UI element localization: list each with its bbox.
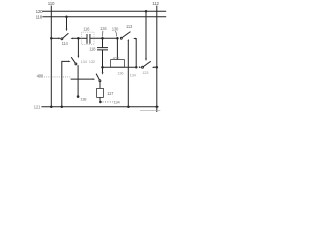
lower wire [103,66,137,68]
svg-text:134: 134 [100,26,107,31]
svg-text:123: 123 [142,70,149,75]
svg-text:116: 116 [83,26,90,31]
svg-text:117: 117 [107,91,114,96]
wire S5 output to resistor [99,82,101,88]
node dot lower wire / S2 drop [135,66,138,69]
arrow up at top of bleeder [128,39,130,41]
net 400 dotted leader [44,76,70,78]
wire S4 output down to terminal [77,65,79,96]
capacitor 116 plates [87,34,90,44]
svg-text:113: 113 [126,24,133,29]
node dot 112 line / bottom rail [156,106,159,109]
wire mid feed to S1 [51,37,58,39]
wire gate drop to box [116,38,118,59]
faint stub line bottom right [140,110,160,112]
wire switch S1 control drop [66,17,68,29]
wire S2 output corner down [134,39,137,68]
arrow left on S2 output [133,38,135,40]
switch S5 arm [96,74,99,80]
switch S1 pivot [61,38,63,40]
node dot lower wire branch [101,66,104,69]
switch S2 arm [122,32,130,38]
switch S2 pivot [120,37,122,39]
node dot S1 output / S4 branch [77,37,80,40]
resistor 117 box [97,88,104,97]
wire S4 feed from bottom rail [62,61,69,106]
wire S4 control drop [77,38,79,56]
svg-text:130: 130 [112,26,119,31]
node dot 130 on mid wire [116,37,119,40]
terminal dot 136b [99,101,102,104]
svg-text:134: 134 [113,100,120,105]
svg-text:4001: 4001 [113,56,120,60]
svg-text:134: 134 [130,73,137,78]
wire 110 tick [50,6,52,12]
svg-text:120: 120 [36,9,43,14]
svg-text:112: 112 [152,1,159,6]
switch S5 pivot [99,80,101,82]
wire resistor to terminal [99,97,101,100]
arrow down onto switch S3 [145,59,147,62]
switch S1 arm [63,33,69,38]
wire left vertical from 110 [50,11,52,107]
svg-text:114: 114 [62,41,69,46]
svg-text:134: 134 [81,59,88,64]
rail bottom [41,106,158,108]
switch S4 pivot [75,63,77,65]
node dot at left vertical / bottom rail [50,106,53,109]
node dot rail118 / switch S1 control [65,16,68,19]
switch S3 arm [143,61,150,66]
wire 112 vertical [156,6,158,112]
svg-text:400: 400 [37,73,44,78]
arrow right into switch S5 [93,78,95,80]
svg-text:118: 118 [89,47,96,52]
wire capacitor 118a to lower wire [102,50,104,67]
node dot bleeder / bottom rail [127,106,130,109]
arrow right into switch S1 [59,37,61,39]
svg-text:110: 110 [48,1,55,6]
arrow right into switch S4 [68,61,70,63]
rail 118 [42,16,166,18]
node dot S3 output / 112 line [156,66,159,69]
rail 120 [42,10,166,12]
svg-text:121: 121 [34,105,41,110]
terminal dot 138 [77,95,80,98]
capacitor 118a plates [97,48,108,50]
svg-text:118: 118 [36,15,43,20]
wire bleeder 128 [127,41,129,107]
node dot S4 feed / bottom rail [61,106,64,109]
svg-text:132: 132 [89,59,96,64]
box 4001 [111,60,125,68]
dashed box around capacitor 116 [82,32,94,45]
node dot at left vertical / mid wire [50,37,53,40]
wire drop to switch S5 control [102,67,104,72]
switch S3 pivot [142,66,144,68]
terminal 136 dotted leader [103,101,113,103]
switch S4 arm [71,57,75,63]
svg-text:136: 136 [117,70,124,75]
arrow right into switch S3 [139,66,141,68]
capacitor 118a feed [102,38,104,47]
svg-text:138: 138 [80,96,87,101]
wire S3 output to 112 line [154,66,157,68]
node 130 leader tick [116,31,117,36]
wire S1 output to capacitor 116 [73,37,87,39]
arrow left on S3 output [152,66,154,68]
wire rail120 drop to S3 [145,10,148,13]
arrow left on S1 output [70,38,72,40]
arrow down onto switch S4 [78,56,80,59]
node dot 134 on mid wire [101,37,104,40]
wire S5 feed [71,78,93,80]
wire capacitor 116 to node 134 [90,37,118,39]
arrow down onto switch S5 [102,72,104,75]
node 134 leader tick [102,31,104,37]
arrow down onto switch S1 [66,29,68,32]
